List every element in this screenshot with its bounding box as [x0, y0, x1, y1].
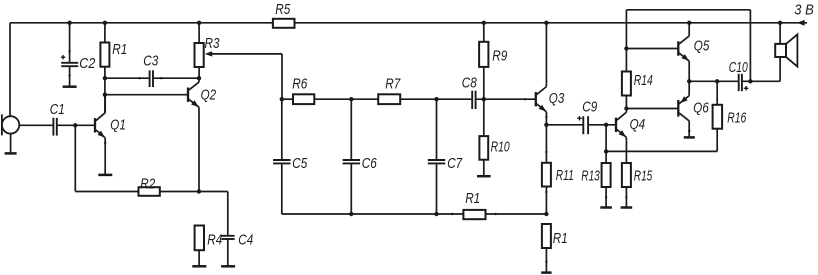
wire microphone to C1 — [19, 124, 52, 126]
3V supply arrow — [797, 20, 805, 26]
capacitor C8 — [462, 75, 478, 109]
svg-text:R1: R1 — [112, 41, 127, 58]
svg-text:R14: R14 — [634, 72, 653, 89]
node R6 left / C5 / feedback — [280, 97, 284, 101]
capacitor C2 — [61, 23, 96, 86]
resistor R14 — [622, 72, 653, 113]
transistor Q2 — [188, 78, 217, 191]
resistor R2 — [139, 175, 160, 196]
svg-text:C10: C10 — [729, 59, 748, 76]
wire bootstrap vertical top — [625, 10, 627, 72]
svg-text:C9: C9 — [582, 98, 598, 115]
node rail/R1 — [103, 21, 107, 25]
node rail/R3 — [197, 21, 201, 25]
node bootstrap / C10 — [748, 79, 752, 83]
resistor R11 — [542, 125, 574, 214]
ground (C2) — [63, 85, 77, 88]
svg-text:R1: R1 — [465, 190, 480, 207]
resistor R1 (vertical) — [542, 224, 568, 272]
wire to Q5 base — [626, 48, 677, 50]
transistor Q6 (PNP) — [678, 81, 709, 136]
transistor Q5 — [678, 23, 710, 82]
resistor R6 — [292, 75, 314, 104]
resistor R3 (trimmer) — [195, 23, 221, 78]
svg-text:R6: R6 — [292, 75, 308, 92]
resistor R13 — [581, 151, 610, 207]
node R16 top — [715, 79, 719, 83]
capacitor C7 — [428, 99, 463, 214]
resistor R15 — [622, 163, 653, 207]
ground (R4) — [192, 265, 206, 268]
svg-text:Q4: Q4 — [630, 116, 646, 133]
svg-text:R11: R11 — [556, 167, 574, 184]
svg-text:R7: R7 — [385, 75, 401, 92]
svg-text:C5: C5 — [292, 155, 308, 172]
svg-text:R10: R10 — [491, 138, 510, 155]
wire speaker top lead — [779, 23, 781, 44]
svg-text:R9: R9 — [492, 48, 508, 65]
wire R7 to C8 — [400, 98, 471, 100]
pin dot Q3 emitter — [545, 116, 547, 118]
svg-text:R15: R15 — [634, 168, 653, 185]
node Q3 emitter / R11 / C9 — [544, 123, 548, 127]
pin dot Q3 base — [524, 98, 526, 100]
node Q4 collector / R14 / Q6 base wire — [624, 106, 628, 110]
wire C10 to speaker — [743, 80, 780, 82]
ground (Q6) — [684, 136, 695, 139]
capacitor C1 — [50, 101, 65, 136]
wire bottom rail left — [282, 213, 464, 215]
node C7 top — [434, 97, 438, 101]
wire bootstrap down — [749, 10, 751, 82]
wire to R2 — [75, 191, 138, 193]
svg-text:C8: C8 — [462, 75, 478, 92]
wire R2 to Q2 emitter node — [160, 191, 199, 193]
node Q5 emitter / Q6 emitter output — [687, 79, 691, 83]
resistor R1 — [100, 23, 127, 113]
svg-text:C3: C3 — [143, 53, 159, 70]
node C1/Q1/R2 junction — [73, 123, 77, 127]
node Q2 collector / R3 / C3 — [197, 76, 201, 80]
ground (R13) — [600, 206, 612, 209]
ground (Q1 emitter) — [98, 174, 112, 177]
resistor R5 — [273, 1, 295, 28]
transistor Q3 — [536, 23, 565, 125]
node A: C9 / Q4 base / R13 — [604, 123, 608, 127]
node Q5 base tap — [624, 46, 628, 50]
capacitor C4 — [221, 192, 253, 266]
capacitor C5 — [273, 99, 308, 214]
capacitor C10 — [729, 59, 749, 91]
wire left drop from rail to microphone — [9, 23, 11, 117]
microphone BM1 — [2, 114, 19, 135]
resistor R7 — [378, 75, 401, 104]
capacitor C9 — [577, 98, 598, 134]
svg-text:Q2: Q2 — [201, 86, 217, 103]
pin dot Q1 emitter — [104, 142, 106, 144]
resistor R9 — [479, 23, 508, 99]
wire R1 node to C3 — [105, 77, 149, 79]
wire C8 to Q3 base — [476, 98, 535, 100]
wire R6 to R7 — [314, 98, 378, 100]
svg-text:Q5: Q5 — [694, 38, 710, 55]
node C8/R9/R10 — [482, 97, 486, 101]
svg-text:R1: R1 — [553, 230, 568, 247]
R3 wiper arrow — [205, 51, 282, 56]
svg-text:Q6: Q6 — [693, 99, 709, 116]
wire C1 node down — [74, 125, 76, 191]
ground (R1 vertical) — [541, 271, 551, 274]
svg-text:C1: C1 — [50, 101, 65, 118]
svg-text:C6: C6 — [362, 155, 378, 172]
node rail/R9 — [482, 21, 486, 25]
wire speaker bottom lead — [779, 57, 781, 81]
pin dot Q6 collector — [688, 130, 690, 132]
svg-text:R4: R4 — [207, 231, 222, 248]
wire emitter row — [606, 150, 717, 152]
wire Q1 collector to Q2 base — [105, 94, 187, 96]
resistor R16 — [713, 81, 747, 151]
svg-text:Q1: Q1 — [110, 117, 126, 134]
wire top supply rail right segment — [295, 22, 808, 24]
wire Q3 emitter to C9 — [546, 124, 582, 126]
svg-text:Q3: Q3 — [549, 90, 565, 107]
resistor R10 — [479, 99, 510, 175]
ground (microphone) — [5, 134, 17, 154]
speaker BA1 — [775, 34, 797, 66]
wire top supply rail left segment — [10, 22, 273, 24]
ground (R15) — [621, 206, 633, 209]
svg-text:R5: R5 — [275, 1, 291, 18]
node Q1 collector — [103, 93, 107, 97]
svg-text:R16: R16 — [727, 109, 746, 126]
transistor Q4 — [616, 112, 645, 163]
node C7 bottom — [434, 212, 438, 216]
node R13 top — [604, 149, 608, 153]
node rail / speaker — [778, 21, 782, 25]
node C6 bottom — [349, 212, 353, 216]
node bottom rail / R11 / R1 — [544, 212, 548, 216]
svg-text:R13: R13 — [581, 168, 600, 185]
wire node A down — [605, 125, 607, 152]
wire C9 to Q4 base — [589, 124, 615, 126]
wire node to R6 — [282, 98, 293, 100]
wire to Q6 base — [626, 108, 677, 110]
svg-text:3 В: 3 В — [794, 1, 814, 18]
wire output row to C10 — [689, 80, 738, 82]
node rail/C2 — [67, 21, 71, 25]
wire bottom rail right — [486, 213, 547, 215]
svg-text:C7: C7 — [447, 155, 463, 172]
svg-text:C2: C2 — [79, 55, 96, 72]
ground (R10) — [477, 175, 491, 178]
node rail/Q3 collector — [544, 21, 548, 25]
wire C3 to Q2 collector node — [154, 77, 199, 79]
node R1/C3 — [103, 76, 107, 80]
capacitor C6 — [343, 99, 378, 214]
wire node to C4 — [199, 191, 228, 193]
capacitor C3 — [139, 53, 163, 88]
wire bootstrap horizontal — [626, 9, 750, 11]
svg-text:R2: R2 — [140, 175, 156, 192]
resistor R4 — [195, 226, 223, 266]
node rail / Q5 collector — [687, 21, 691, 25]
node C6 top — [349, 97, 353, 101]
transistor Q1 — [95, 95, 126, 175]
resistor R1 (horizontal) — [451, 190, 497, 219]
svg-text:C4: C4 — [238, 231, 253, 248]
node R2/Q2e/R4/C4 — [197, 189, 201, 193]
ground (C4) — [221, 265, 235, 268]
wire wiper feedback vertical — [281, 54, 283, 99]
wire C1 to Q1 base — [58, 124, 94, 126]
svg-text:R3: R3 — [205, 35, 221, 52]
